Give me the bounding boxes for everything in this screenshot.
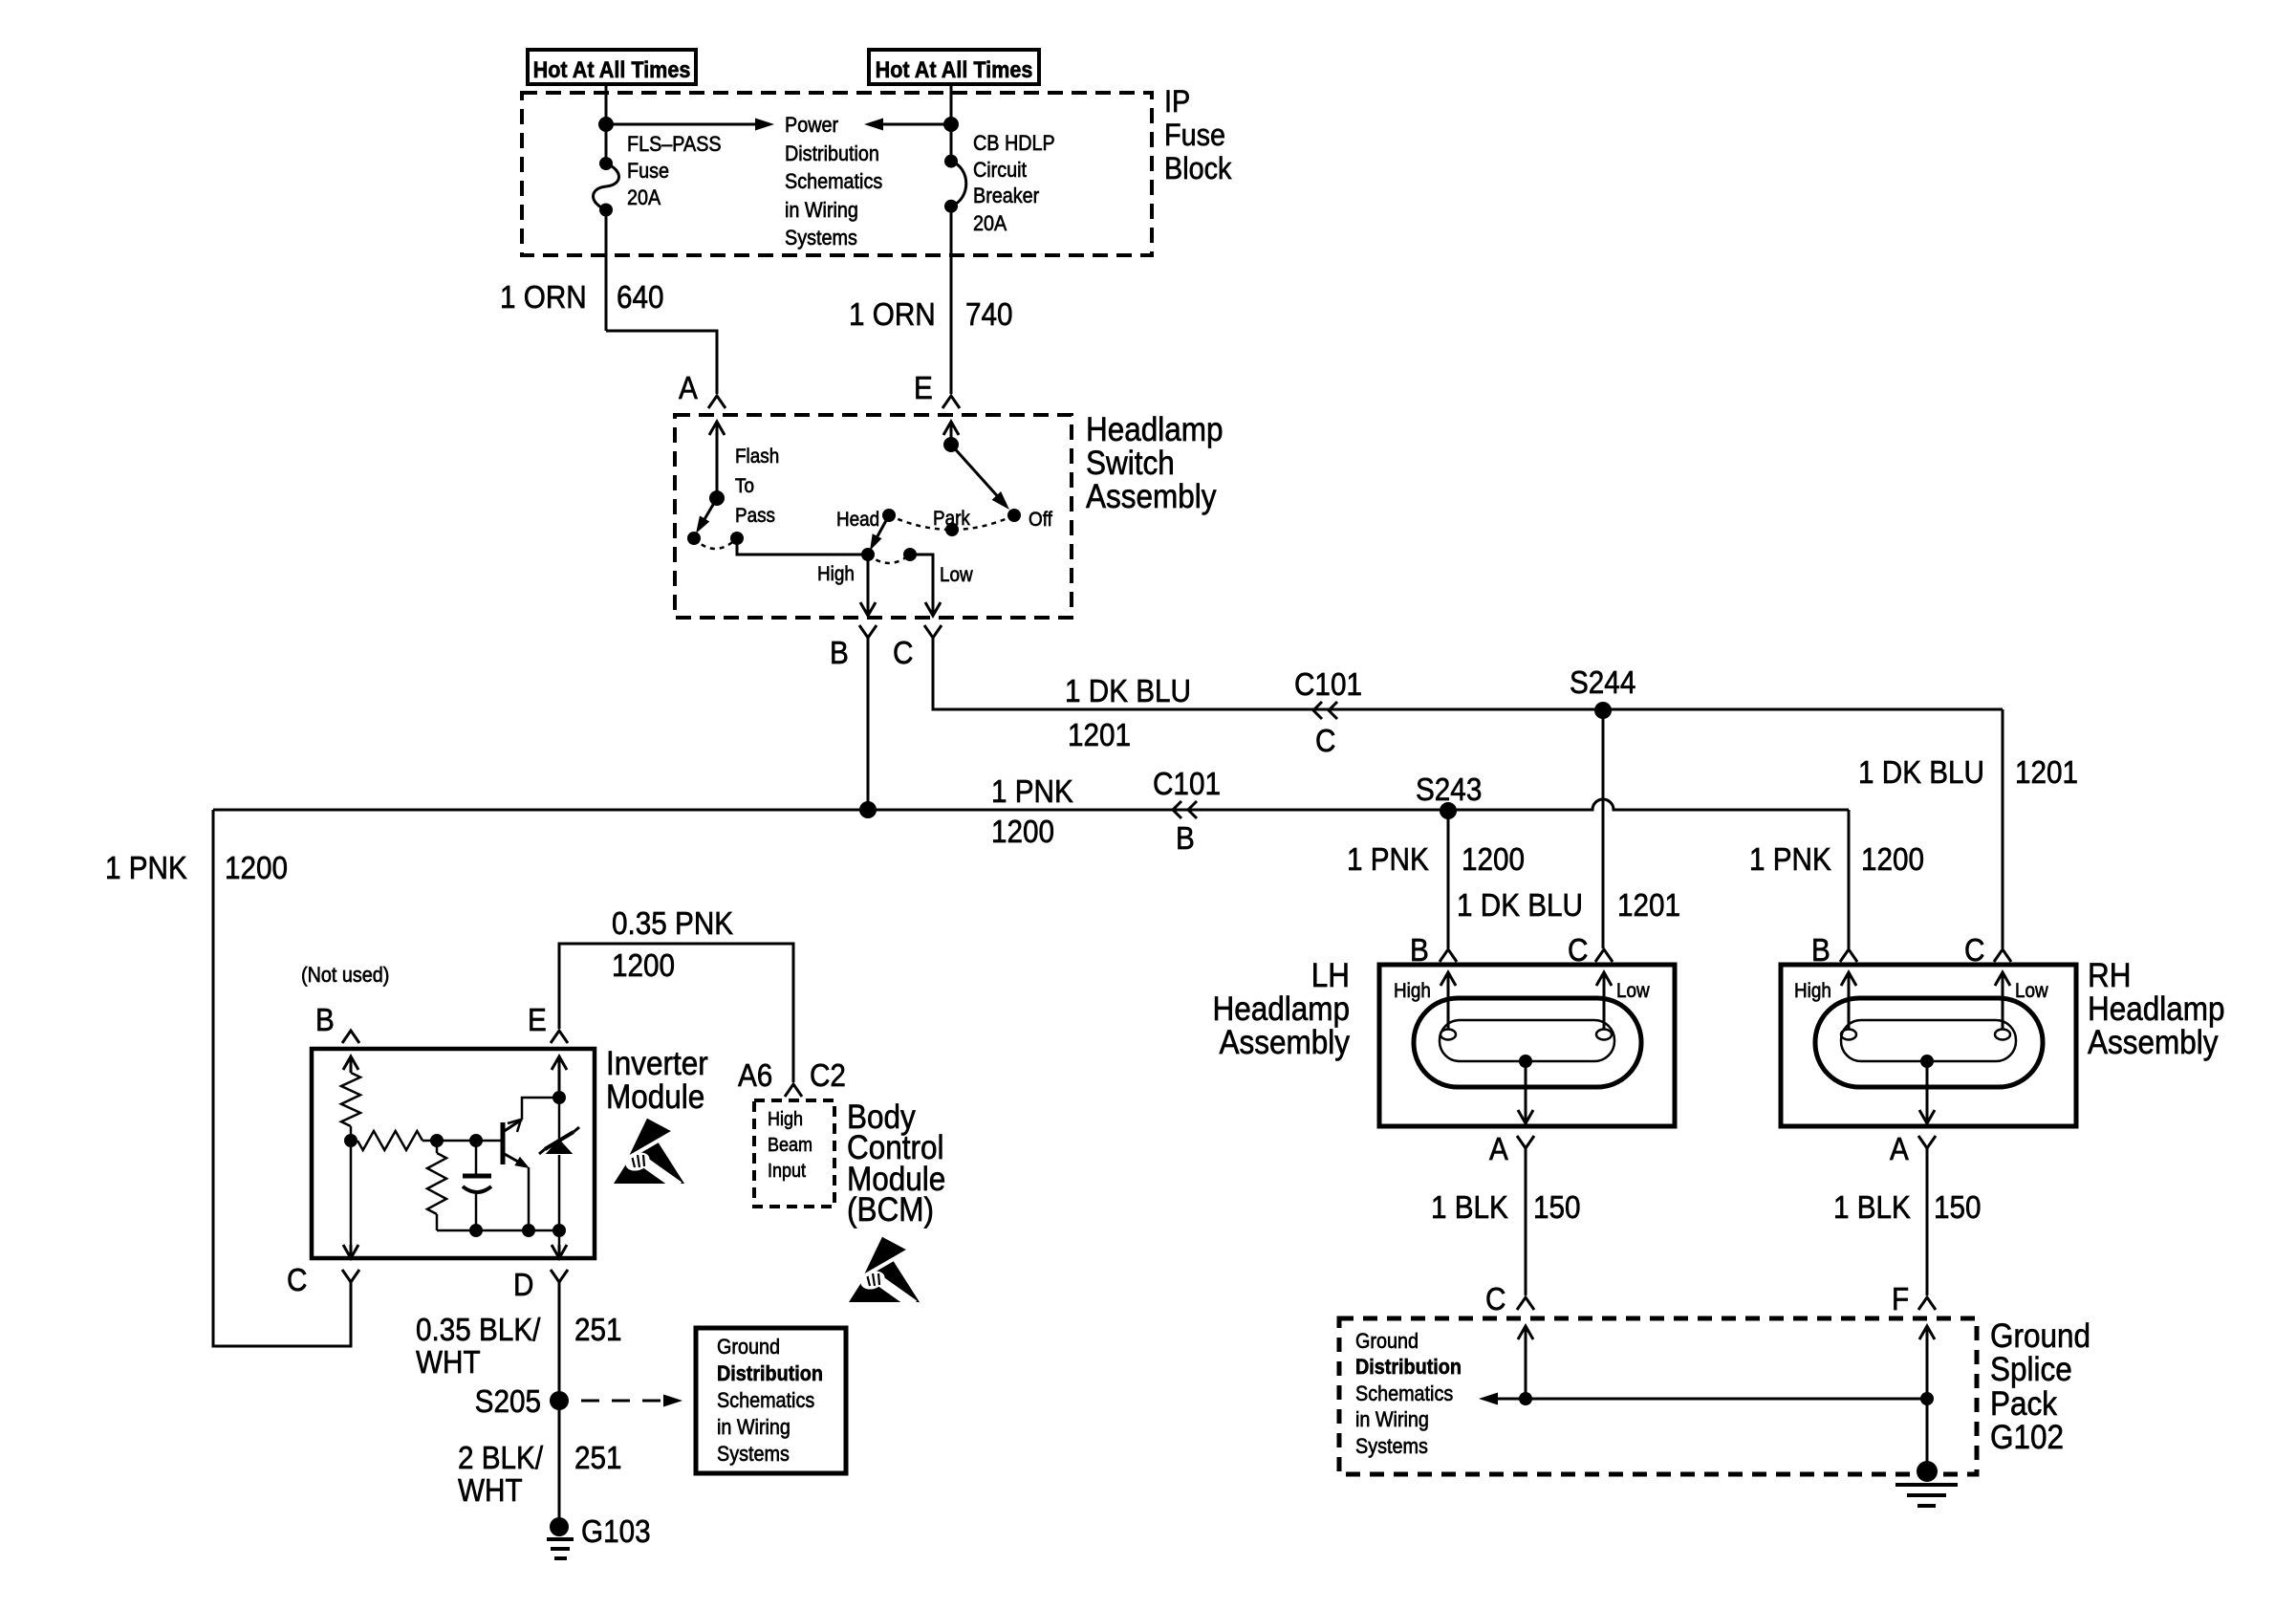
linkage dashed arc (flash-to-pass) <box>694 538 737 549</box>
svg-text:FLS–PASS: FLS–PASS <box>627 133 722 156</box>
svg-text:1200: 1200 <box>612 948 675 984</box>
pin C feed arrow (splice pack) <box>1518 1326 1533 1339</box>
ESD symbol (inverter) <box>614 1116 684 1186</box>
connector chevron at inverter pin D <box>551 1270 568 1282</box>
svg-text:A6: A6 <box>738 1058 772 1094</box>
Headlamp Switch Assembly dashed box <box>675 415 1072 618</box>
node: Off contact <box>1007 509 1021 522</box>
svg-text:F: F <box>1892 1282 1909 1317</box>
wire: R2 to transistor base <box>422 1140 503 1142</box>
svg-text:1 BLK: 1 BLK <box>1431 1190 1508 1226</box>
svg-text:High: High <box>768 1109 803 1130</box>
IP Fuse Block dashed box <box>522 93 1152 255</box>
svg-text:E: E <box>914 371 933 406</box>
svg-text:Power: Power <box>785 114 838 137</box>
svg-text:Flash: Flash <box>735 446 779 468</box>
svg-text:1 PNK: 1 PNK <box>1749 842 1831 878</box>
svg-text:Distribution: Distribution <box>1355 1356 1462 1379</box>
svg-text:2 BLK/: 2 BLK/ <box>458 1441 543 1476</box>
svg-text:C101: C101 <box>1294 667 1362 703</box>
svg-text:C: C <box>1315 724 1335 759</box>
svg-text:Ground: Ground <box>1355 1330 1419 1353</box>
svg-text:20A: 20A <box>973 212 1007 235</box>
wire: down to G102 ground <box>1926 1399 1929 1469</box>
svg-text:S205: S205 <box>475 1384 541 1420</box>
wire: right feed from Hot box into breaker <box>950 84 953 162</box>
svg-text:C101: C101 <box>1153 767 1221 802</box>
svg-text:Off: Off <box>1029 509 1052 531</box>
connector chevron at inverter pin B <box>342 1031 359 1043</box>
svg-text:C: C <box>287 1263 307 1298</box>
resistor R2 (series) <box>357 1131 422 1150</box>
svg-text:Inverter: Inverter <box>606 1046 708 1083</box>
svg-text:Head: Head <box>836 509 879 531</box>
wire: E line to zener <box>558 1098 561 1143</box>
connector chevron at RH pin C <box>1994 949 2011 962</box>
svg-text:1201: 1201 <box>1068 718 1131 753</box>
wire: emitter down to ground rail <box>528 1167 531 1230</box>
LH bulb inner element <box>1440 1020 1614 1061</box>
svg-text:Pack: Pack <box>1990 1386 2057 1424</box>
svg-text:1 DK BLU: 1 DK BLU <box>1457 888 1583 924</box>
Ground Splice Pack dashed box <box>1339 1318 1977 1474</box>
wire: flash-to-pass contact to High node <box>737 538 868 555</box>
svg-text:WHT: WHT <box>458 1473 523 1509</box>
wire: breaker output down to pin E <box>950 207 953 394</box>
arrow to Power Distribution (from left) <box>606 123 757 126</box>
wire: zener to ground rail and pin D <box>558 1155 561 1245</box>
LH filament loop (low) <box>1596 1030 1612 1040</box>
wire: 1 PNK 1200 horizontal bus with hop over dk blu branch <box>213 799 1849 810</box>
inverter pin B feed arrow <box>343 1056 358 1070</box>
node: splice junction F <box>1920 1392 1934 1405</box>
wire: left feed from Hot box into fuse <box>605 84 608 163</box>
RH high beam feed arrow <box>1841 972 1856 986</box>
svg-text:1200: 1200 <box>1861 842 1924 878</box>
svg-text:Assembly: Assembly <box>1086 479 1217 516</box>
svg-text:Beam: Beam <box>768 1135 812 1156</box>
capacitor C1 <box>475 1141 478 1176</box>
wire: left 1 PNK 1200 loop to inverter pin C <box>213 810 351 1346</box>
svg-text:Headlamp: Headlamp <box>2088 991 2225 1029</box>
svg-text:WHT: WHT <box>416 1345 481 1381</box>
node: flash-to-pass pivot <box>709 490 725 506</box>
svg-text:G102: G102 <box>1990 1420 2064 1457</box>
svg-text:Schematics: Schematics <box>717 1389 814 1412</box>
svg-text:Input: Input <box>768 1161 807 1182</box>
svg-text:S244: S244 <box>1570 665 1635 701</box>
node: RH bulb common <box>1920 1055 1934 1068</box>
svg-text:in Wiring: in Wiring <box>717 1416 791 1439</box>
node: splice junction C <box>1519 1392 1532 1405</box>
RH low beam feed arrow <box>1995 972 2010 986</box>
svg-text:IP: IP <box>1164 85 1190 120</box>
svg-text:Distribution: Distribution <box>785 142 879 165</box>
node: Head contact <box>882 509 896 522</box>
svg-text:S243: S243 <box>1416 772 1482 808</box>
rotary switch lever to Off <box>951 445 1002 501</box>
svg-text:Systems: Systems <box>1355 1435 1428 1458</box>
svg-text:640: 640 <box>617 280 664 315</box>
svg-text:Switch: Switch <box>1086 446 1175 483</box>
LH high beam feed arrow <box>1440 972 1456 986</box>
RH bulb inner element <box>1841 1020 2016 1061</box>
svg-text:150: 150 <box>1934 1190 1982 1226</box>
svg-text:1 PNK: 1 PNK <box>1347 842 1429 878</box>
connector C101 C on dk blu bus <box>1313 702 1322 719</box>
svg-text:Low: Low <box>2015 980 2048 1002</box>
node: flash-to-pass contact right <box>730 532 744 545</box>
svg-text:LH: LH <box>1311 958 1350 995</box>
connector chevron at C (switch) <box>924 625 942 638</box>
ground G102 symbol <box>1917 1461 1938 1482</box>
svg-text:(Not used): (Not used) <box>301 964 389 987</box>
LH bulb outer shell <box>1414 998 1641 1087</box>
svg-text:Assembly: Assembly <box>1220 1025 1351 1062</box>
RH filament loop (low) <box>1995 1030 2010 1040</box>
svg-text:Splice: Splice <box>1990 1352 2072 1389</box>
node: rotary switch pivot <box>943 437 959 452</box>
dashed reference arrow to ground schematics <box>581 1400 667 1403</box>
svg-text:To: To <box>735 475 754 497</box>
zener diode D1 <box>548 1141 571 1153</box>
svg-text:1 BLK: 1 BLK <box>1833 1190 1911 1226</box>
svg-text:Block: Block <box>1164 152 1232 186</box>
node: E-line ground <box>552 1224 566 1237</box>
svg-text:RH: RH <box>2088 958 2131 995</box>
connector chevron at inverter pin C <box>342 1270 359 1282</box>
node: capacitor ground <box>469 1224 483 1237</box>
connector chevron at LH pin C <box>1595 949 1613 962</box>
svg-text:Systems: Systems <box>717 1443 790 1466</box>
svg-text:Breaker: Breaker <box>973 185 1039 207</box>
svg-text:251: 251 <box>574 1313 622 1348</box>
svg-text:C: C <box>1485 1282 1505 1317</box>
node: junction on left feed <box>598 117 614 132</box>
svg-text:Low: Low <box>1616 980 1650 1002</box>
svg-text:C2: C2 <box>810 1058 846 1094</box>
Inverter Module box <box>312 1049 595 1258</box>
fuse FLS-PASS 20A symbol <box>599 157 613 170</box>
node: capacitor tap <box>469 1134 483 1147</box>
arrow to Power Distribution (from right) <box>881 123 951 126</box>
svg-text:1 DK BLU: 1 DK BLU <box>1065 674 1191 709</box>
svg-text:150: 150 <box>1533 1190 1581 1226</box>
svg-text:1 ORN: 1 ORN <box>500 280 587 315</box>
node: flash-to-pass contact left <box>687 532 701 545</box>
svg-text:Systems: Systems <box>785 227 857 250</box>
svg-text:Fuse: Fuse <box>627 160 669 183</box>
svg-text:High: High <box>817 563 855 585</box>
wire: Low output to pin C <box>910 555 933 602</box>
power feed box: Hot At All Times (left) <box>528 50 696 84</box>
wire: RH ground drop <box>1926 1148 1929 1295</box>
svg-text:D: D <box>513 1268 533 1303</box>
svg-text:1 PNK: 1 PNK <box>105 851 187 886</box>
svg-text:Pass: Pass <box>735 505 775 527</box>
svg-text:Headlamp: Headlamp <box>1086 412 1224 449</box>
connector chevron at B (switch) <box>859 625 877 638</box>
ground G103 symbol <box>550 1517 569 1536</box>
wire: High output with arrow to pin B <box>860 602 876 616</box>
wire: C output down and 1 DK BLU 1201 bus <box>933 638 2003 709</box>
svg-text:A: A <box>1890 1132 1909 1167</box>
svg-text:1201: 1201 <box>2015 755 2078 791</box>
svg-text:1 PNK: 1 PNK <box>991 774 1073 810</box>
wire: fuse output down <box>605 210 608 332</box>
connector C101 B on pink bus <box>1173 801 1181 818</box>
svg-text:Schematics: Schematics <box>785 170 882 193</box>
node: R3 tap <box>430 1134 444 1147</box>
wire: dk blu bus corner down to RH pin C <box>2002 709 2004 948</box>
svg-text:251: 251 <box>574 1441 622 1476</box>
beam linkage dashed arc High-Low <box>868 555 910 563</box>
svg-text:High: High <box>1794 980 1831 1002</box>
svg-text:1200: 1200 <box>225 851 288 886</box>
svg-text:in Wiring: in Wiring <box>1355 1408 1429 1431</box>
node S243 splice <box>1440 802 1457 819</box>
svg-text:1200: 1200 <box>1462 842 1525 878</box>
connector chevron at RH pin A <box>1918 1136 1936 1148</box>
svg-text:1 DK BLU: 1 DK BLU <box>1858 755 1984 791</box>
svg-text:Assembly: Assembly <box>2088 1025 2219 1062</box>
svg-text:A: A <box>1489 1132 1508 1167</box>
svg-text:Hot At All Times: Hot At All Times <box>876 56 1033 82</box>
wire: LH ground drop <box>1525 1148 1527 1295</box>
svg-text:in Wiring: in Wiring <box>785 199 858 222</box>
wire: jog right to pin A <box>606 331 717 394</box>
resistor R3 (shunt) <box>436 1141 439 1153</box>
svg-text:(BCM): (BCM) <box>847 1192 934 1229</box>
connector chevron at pin F (splice pack) <box>1918 1297 1936 1310</box>
svg-text:High: High <box>1394 980 1431 1002</box>
wire: R1 to junction <box>350 1126 353 1141</box>
svg-text:CB HDLP: CB HDLP <box>973 132 1055 155</box>
connector chevron at pin C (splice pack) <box>1517 1297 1534 1310</box>
svg-text:B: B <box>1176 821 1195 857</box>
connector chevron at LH pin A <box>1517 1136 1534 1148</box>
headlamp feed arrow (pin E inside) <box>943 422 959 435</box>
svg-text:B: B <box>830 636 849 671</box>
LH low beam feed arrow <box>1596 972 1612 986</box>
RH filament loop (high) <box>1841 1030 1856 1040</box>
svg-text:Ground: Ground <box>1990 1318 2090 1356</box>
node: emitter ground <box>522 1224 535 1237</box>
flash-to-pass feed arrow (pin A inside) <box>709 422 725 435</box>
node: LH bulb common <box>1519 1055 1532 1068</box>
svg-text:Ground: Ground <box>717 1336 780 1359</box>
inverter pin E feed arrow <box>552 1056 567 1070</box>
node: inverter divider junction <box>344 1134 357 1147</box>
node: junction of B wire and 1 PNK 1200 bus <box>859 801 877 818</box>
flash-to-pass switch lever <box>701 498 717 526</box>
svg-text:C: C <box>893 636 913 671</box>
wire: B output down to pink junction <box>867 638 870 810</box>
svg-text:Low: Low <box>940 564 973 586</box>
connector chevron at RH pin B <box>1840 949 1857 962</box>
svg-text:Schematics: Schematics <box>1355 1382 1453 1405</box>
wire: splice bus with arrow to ground schematics <box>1497 1398 1927 1401</box>
connector chevron at BCM C2 <box>785 1084 802 1097</box>
wire: LH common down with arrow to pin A <box>1518 1110 1533 1123</box>
svg-text:Circuit: Circuit <box>973 159 1027 182</box>
node: Low contact <box>903 548 917 561</box>
svg-text:Fuse: Fuse <box>1164 119 1225 153</box>
BCM High Beam Input dashed box <box>754 1100 834 1207</box>
svg-text:1200: 1200 <box>991 815 1054 850</box>
svg-text:B: B <box>315 1003 335 1038</box>
wire: divider down to pin C <box>350 1141 353 1245</box>
Ground Distribution Schematics box (solid) <box>696 1328 846 1473</box>
rotary linkage dashed arc Head-Park-Off <box>889 515 1014 530</box>
connector chevron at inverter pin E <box>551 1031 568 1043</box>
svg-text:A: A <box>679 371 698 406</box>
power feed box: Hot At All Times (right) <box>869 50 1039 84</box>
wire: 0.35 PNK 1200 from E to BCM <box>559 944 793 1082</box>
svg-text:G103: G103 <box>581 1514 651 1550</box>
wire: S244 branch down to LH pin C <box>1602 710 1605 948</box>
node: junction on right feed <box>943 117 959 132</box>
beam select lever from Head <box>873 515 889 545</box>
connector chevron at LH pin B <box>1440 949 1457 962</box>
resistor R1 (bias) <box>341 1073 360 1126</box>
svg-text:Headlamp: Headlamp <box>1212 991 1350 1029</box>
node: High contact <box>861 548 875 561</box>
transistor Q1 <box>501 1122 506 1164</box>
svg-text:0.35 PNK: 0.35 PNK <box>612 906 733 942</box>
circuit breaker CB HDLP 20A symbol <box>944 155 958 168</box>
node S205 splice <box>550 1391 569 1410</box>
svg-text:0.35 BLK/: 0.35 BLK/ <box>416 1313 541 1348</box>
node S244 splice <box>1594 702 1612 719</box>
svg-text:E: E <box>528 1003 547 1038</box>
node: collector junction <box>552 1091 566 1104</box>
ESD symbol (BCM) <box>849 1234 920 1305</box>
svg-text:20A: 20A <box>627 186 661 209</box>
wire: inverter pin D ground drop <box>558 1282 561 1525</box>
node: Park contact <box>945 523 959 536</box>
inverter ground rail <box>437 1229 559 1232</box>
LH Headlamp Assembly box <box>1379 965 1675 1126</box>
connector chevron at E <box>942 396 960 408</box>
svg-text:740: 740 <box>965 297 1013 333</box>
svg-text:1201: 1201 <box>1617 888 1680 924</box>
connector chevron at A <box>708 396 726 408</box>
wire: RH common down with arrow to pin A <box>1919 1110 1935 1123</box>
LH filament loop (high) <box>1440 1030 1456 1040</box>
pin F feed arrow (splice pack) <box>1919 1326 1935 1339</box>
svg-text:Module: Module <box>606 1079 704 1117</box>
wire: S243 branch down to LH pin B <box>1447 811 1450 948</box>
RH bulb outer shell <box>1815 998 2043 1087</box>
svg-text:Hot At All Times: Hot At All Times <box>533 56 691 82</box>
svg-text:Distribution: Distribution <box>717 1362 823 1385</box>
svg-text:1 ORN: 1 ORN <box>849 297 936 333</box>
wire: collector to E rail <box>522 1098 559 1120</box>
svg-text:Park: Park <box>933 508 971 530</box>
RH Headlamp Assembly box <box>1781 965 2076 1126</box>
wire: pink bus corner down to RH pin B <box>1848 810 1851 948</box>
